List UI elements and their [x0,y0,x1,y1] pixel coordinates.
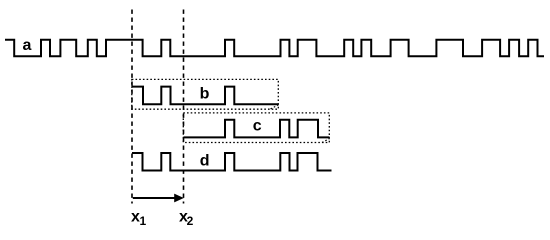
dotted box b [132,79,278,109]
svg-text:a: a [23,37,32,54]
arrow from x1 to x2 [133,197,177,199]
svg-text:c: c [253,118,262,135]
arrowhead [174,194,184,203]
svg-text:b: b [200,85,210,102]
dotted box c [183,113,329,143]
waveform b [132,87,279,105]
waveform c [184,120,330,138]
dotted box b bottom-right hook [271,105,279,109]
waveform a [5,40,544,57]
dotted box c bottom-right hook [322,139,329,143]
waveform d [132,153,332,171]
dashed cursor line x1 [131,10,133,204]
svg-text:1: 1 [140,214,147,228]
svg-text:2: 2 [187,214,194,228]
dashed cursor line x2 [183,10,185,204]
svg-text:d: d [200,152,210,169]
